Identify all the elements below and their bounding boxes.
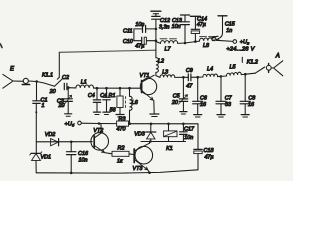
svg-text:L7: L7 [165,47,172,53]
resistor R3 [117,121,129,126]
inductor L4 [198,74,218,77]
svg-text:16: 16 [248,102,254,108]
svg-text:+Uн: +Uн [240,40,250,46]
junction VT2 collector [98,122,101,125]
wire L3 to C9 [175,76,188,78]
wire VD2 line to VT2 base [36,141,92,143]
svg-text:C18: C18 [204,148,214,154]
svg-text:L4: L4 [207,67,213,73]
junction capacitor C4b [105,87,108,90]
svg-text:C13: C13 [172,18,182,24]
ground at C4b [103,112,110,114]
capacitor C10 [134,29,156,44]
svg-text:C15: C15 [225,22,236,28]
node A antenna symbol [271,61,283,76]
wire bias corner to C18 [197,124,199,150]
capacitor C15 [212,18,223,41]
diode VD2 [51,139,59,146]
svg-text:C4: C4 [88,93,95,99]
variable capacitor C5 [178,77,188,111]
svg-text:VT1: VT1 [140,73,150,79]
svg-text:C16: C16 [78,151,88,157]
svg-text:K1.2: K1.2 [247,60,258,66]
inductor L5 [226,72,241,76]
capacitor C16 [67,142,76,173]
diode VD1 zener [30,142,42,173]
junction C10 trunk [155,39,158,42]
ground at C3 [65,114,72,116]
ground at C4 [94,112,101,114]
svg-text:470: 470 [117,126,126,132]
ground at C7 [217,115,225,117]
junction C14 rail [194,40,197,43]
capacitor C17 [180,124,188,142]
ground above C14 [190,15,200,17]
junction at R1 [119,87,122,90]
junction C16 bottom [70,172,73,175]
capacitor C12 on trunk [152,13,160,19]
svg-text:R2: R2 [118,145,125,151]
insulator bushing at E input [22,78,36,84]
variable capacitor C3 [63,88,73,114]
svg-text:L1: L1 [81,80,87,86]
junction relay top [167,123,170,126]
svg-text:20: 20 [49,89,56,95]
bottom rail wire [36,170,198,173]
svg-text:+Uб: +Uб [65,122,75,128]
svg-text:VT3: VT3 [133,166,143,172]
junction C7 tap [220,75,223,78]
svg-text:C9: C9 [186,68,193,74]
junction C8 tap [244,73,247,76]
inductor L2 [156,58,159,76]
diode VD3 [146,124,156,142]
svg-text:L2: L2 [158,58,164,64]
insulator bushing at A output [266,63,271,72]
inductor L7 [160,39,178,44]
svg-text:20: 20 [171,100,178,106]
wire E node to switch K1.1 [37,82,55,87]
node E input antenna symbol [3,74,24,88]
ground at VT1 emitter [150,114,159,117]
transistor VT2 [91,124,112,154]
svg-text:R1: R1 [109,93,116,99]
svg-text:C17: C17 [184,127,195,133]
inductor L3 [160,75,175,78]
svg-text:VT2: VT2 [93,128,103,134]
terminal +Un [233,40,237,44]
inductor L6 [126,88,132,123]
resistor R2 [112,151,134,156]
capacitor C18 electrolytic [194,149,202,169]
capacitor C6 [193,77,203,114]
junction C13 rail [184,42,187,45]
svg-text:47: 47 [186,83,193,89]
junction L6 bottom [128,122,131,125]
svg-text:C2: C2 [62,75,69,81]
ground above C13 [181,14,190,16]
svg-text:3,3n: 3,3n [159,24,170,30]
capacitor C2 [64,83,68,89]
page edge mark [0,44,2,48]
junction VD3 bottom VT3 collector [149,140,152,143]
switch K1.2 [242,57,264,73]
svg-text:K1.1: K1.1 [42,73,53,79]
svg-text:K1: K1 [166,146,173,152]
rail wire L8 to +Un terminal [216,40,233,41]
bias line R3 to relay area [129,123,199,125]
junction C16 tap [70,141,73,144]
svg-text:1: 1 [42,103,45,109]
svg-text:1n: 1n [226,28,232,34]
svg-text:C8: C8 [248,95,255,101]
ground above C15 [218,16,227,18]
svg-text:C4: C4 [100,93,107,99]
supply rail with L7 L8 [156,42,161,44]
svg-text:33: 33 [225,102,231,108]
junction at C1 tap [35,80,38,83]
capacitor C13 [181,15,190,43]
capacitor C4 [93,88,100,112]
wire K1.1 to supply trunk [59,50,156,52]
bias line to R3 [99,123,117,125]
node line VT3 collector [141,141,186,143]
svg-text:VD1: VD1 [41,154,52,160]
capacitor C11 [134,25,156,32]
supply trunk wire [155,19,157,57]
svg-text:A: A [275,54,280,60]
svg-text:E: E [10,67,15,73]
junction VT3 emitter bottom rail [148,171,151,174]
svg-text:VD3: VD3 [134,131,145,137]
junction at L6 top [128,87,131,90]
ground at R1 [116,115,124,117]
svg-text:20: 20 [58,103,65,109]
svg-text:C11: C11 [123,29,133,35]
junction capacitor C4a [96,87,99,90]
svg-text:L5: L5 [230,65,237,71]
rail wire L7 to L8 [178,41,200,43]
svg-text:R3: R3 [119,116,126,122]
inductor L1 [68,85,97,88]
junction VD3 top [150,123,153,126]
svg-text:10n: 10n [79,157,88,163]
svg-text:56: 56 [110,107,116,113]
svg-text:47µ: 47µ [204,155,213,161]
svg-text:10n: 10n [135,22,144,28]
capacitor C1 [33,82,40,142]
ground at C5 [180,112,187,114]
junction C17 top [182,123,185,126]
transistor VT1 [140,75,156,113]
ground at C8 [241,115,249,117]
svg-text:C7: C7 [225,95,233,101]
wire L4 to L5 [217,75,226,78]
capacitor C4b [103,88,110,112]
svg-text:47µ: 47µ [197,22,206,28]
svg-text:10n: 10n [172,24,181,30]
svg-text:C12: C12 [160,18,170,24]
svg-text:L8: L8 [203,43,209,49]
ground above C12 [151,11,161,14]
junction C11 trunk [155,28,158,31]
svg-text:VD2: VD2 [45,132,56,138]
capacitor C8 [240,74,250,114]
junction C6 tap [196,76,199,79]
junction after C2 [67,86,70,89]
bias terminal +Ub [78,121,99,125]
resistor R1 [117,88,123,114]
svg-text:16: 16 [200,102,206,108]
svg-text:L3: L3 [162,69,168,75]
switch K1.1 [55,52,63,86]
svg-text:1к: 1к [117,158,123,164]
svg-text:47µ: 47µ [135,44,144,50]
svg-text:L6: L6 [132,100,138,106]
ground at C6 [194,115,202,117]
junction dot on C1 lead [35,111,37,113]
inductor L8 [199,36,216,41]
capacitor C7 [216,76,226,114]
svg-text:C10: C10 [123,39,133,45]
svg-text:C6: C6 [200,95,207,101]
relay K1 coil [164,124,177,142]
junction C5 tap [182,76,185,79]
svg-text:10n: 10n [184,135,193,141]
svg-text:+24...28 V: +24...28 V [226,47,255,53]
wire L1 to VT1 base [94,87,141,89]
transistor VT3 [134,142,152,173]
capacitor C9 series [188,74,197,81]
svg-text:C5: C5 [173,93,181,99]
collector node of VT1 [156,76,160,78]
wire L5 to switch K1.2 [241,73,255,74]
capacitor C14 electrolytic [191,17,199,42]
